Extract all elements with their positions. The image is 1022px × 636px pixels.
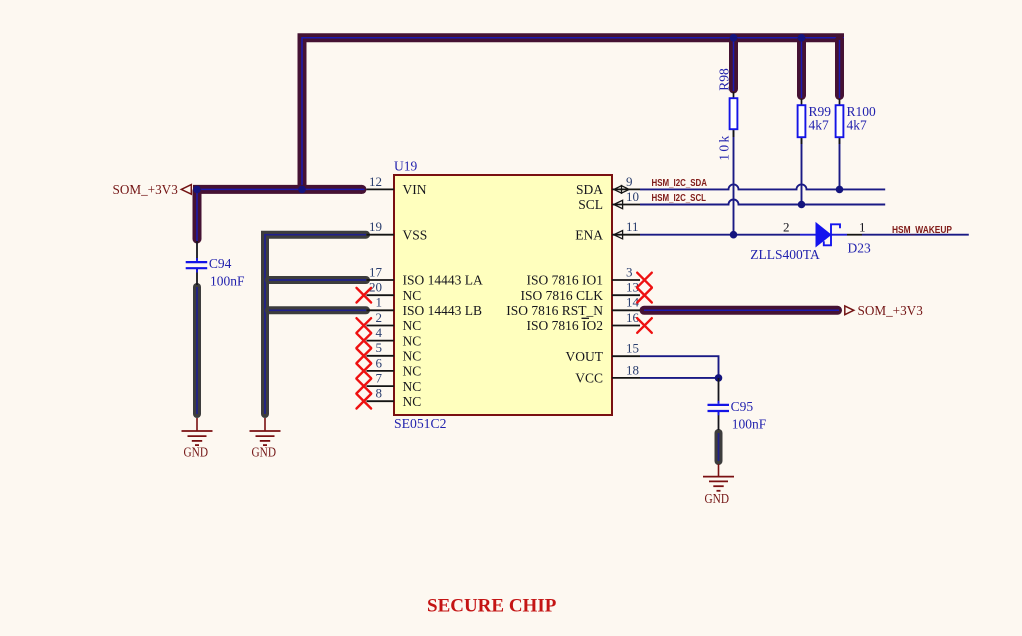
svg-text:15: 15 <box>626 341 639 356</box>
svg-text:R98: R98 <box>717 68 732 91</box>
wire: thick maroon drop to R98 <box>729 40 738 91</box>
svg-text:10: 10 <box>626 189 639 204</box>
node: junction rail R99 <box>798 34 806 42</box>
svg-text:ISO 7816 CLK: ISO 7816 CLK <box>520 288 603 303</box>
svg-text:1: 1 <box>859 220 866 235</box>
wire: thick maroon RST_N to port <box>644 306 839 315</box>
wire: top power rail thick maroon <box>302 38 844 190</box>
svg-text:C95: C95 <box>731 399 754 414</box>
port SOM_+3V3 left <box>113 183 192 198</box>
svg-text:ISO 14443 LB: ISO 14443 LB <box>403 303 483 318</box>
wire: VCC row <box>640 377 719 379</box>
wire: thick maroon VIN row from port to pin 12 <box>193 185 367 194</box>
svg-text:9: 9 <box>626 174 633 189</box>
svg-text:19: 19 <box>369 219 382 234</box>
ground GND middle (VSS bundle) <box>250 418 281 460</box>
no-connect X marks right pins 3,13,16 <box>637 273 652 333</box>
svg-text:SCL: SCL <box>578 197 603 212</box>
svg-text:SE051C2: SE051C2 <box>394 416 447 431</box>
svg-text:SOM_+3V3: SOM_+3V3 <box>858 304 923 319</box>
chip pin names right <box>506 182 604 386</box>
svg-text:D23: D23 <box>848 240 871 255</box>
svg-text:HSM_I2C_SDA: HSM_I2C_SDA <box>652 178 708 189</box>
svg-text:VIN: VIN <box>403 182 427 197</box>
capacitor C95 <box>708 399 767 432</box>
chip U19 body <box>394 159 612 432</box>
node: junction VCC <box>715 374 723 382</box>
resistor R99 <box>798 99 832 144</box>
resistor R98 <box>717 68 738 161</box>
chip pin numbers right <box>626 174 640 377</box>
ground GND left (C94) <box>182 418 213 460</box>
overline on IO2 O <box>582 317 590 319</box>
svg-text:NC: NC <box>403 379 422 394</box>
wire: thick maroon drop to R100 <box>835 40 844 98</box>
svg-text:NC: NC <box>403 364 422 379</box>
wire: thick maroon from port down to C94 <box>193 191 202 241</box>
wire: stem to C95 <box>718 378 720 404</box>
wire: thick maroon drop to R99 <box>797 40 806 98</box>
svg-text:6: 6 <box>376 355 383 370</box>
diode D23 ZLLS400TA <box>750 220 871 262</box>
wire: R100 thin net down to SDA <box>839 138 841 189</box>
wire: VOUT to VCC junction <box>640 356 719 378</box>
svg-text:100nF: 100nF <box>210 274 245 289</box>
wire: ENA net to diode and HSM_WAKEUP <box>640 234 969 236</box>
svg-text:NC: NC <box>403 394 422 409</box>
svg-text:4k7: 4k7 <box>847 118 868 133</box>
svg-text:5: 5 <box>376 340 383 355</box>
wire: SDA net <box>640 184 885 189</box>
svg-text:NC: NC <box>403 288 422 303</box>
pin 9 bidirectional arrow glyph <box>614 186 629 193</box>
svg-text:10k: 10k <box>717 136 732 161</box>
svg-text:ISO 14443 LA: ISO 14443 LA <box>403 273 483 288</box>
svg-text:2: 2 <box>376 310 383 325</box>
chip pin names left <box>403 182 483 409</box>
wire: R98 thin net down to ENA <box>733 130 735 235</box>
port SOM_+3V3 right <box>845 304 923 319</box>
wire: thick gray branch pin 17 row <box>269 276 366 284</box>
wire: thick gray below C95 to GND <box>715 433 723 461</box>
svg-text:R100: R100 <box>847 104 877 119</box>
svg-text:VOUT: VOUT <box>566 349 604 364</box>
svg-text:NC: NC <box>403 349 422 364</box>
svg-text:GND: GND <box>184 445 209 460</box>
resistor R100 <box>836 99 876 144</box>
chip pin stubs left <box>367 189 395 401</box>
svg-text:ISO 7816 RST_N: ISO 7816 RST_N <box>506 303 603 318</box>
wire: thick gray VSS bundle vertical + VSS row <box>265 235 366 414</box>
chip pin stubs right <box>612 189 640 378</box>
svg-text:18: 18 <box>626 362 639 377</box>
svg-text:NC: NC <box>403 333 422 348</box>
svg-text:VSS: VSS <box>403 227 428 242</box>
chip pin numbers left <box>369 174 383 401</box>
node: junction rail/VIN vertical <box>298 186 306 194</box>
svg-text:17: 17 <box>369 264 383 279</box>
svg-text:ZLLS400TA: ZLLS400TA <box>750 247 820 262</box>
node: junction R98/ENA <box>730 231 738 239</box>
node: junction rail R98 <box>730 34 738 42</box>
wire: thick gray below C94 to GND <box>193 287 201 414</box>
wire: thick gray branch pin 1 row <box>269 306 366 314</box>
svg-text:4: 4 <box>376 325 383 340</box>
svg-text:ISO 7816 IO2: ISO 7816 IO2 <box>527 318 604 333</box>
pin 11 input arrow glyph <box>614 231 623 239</box>
svg-text:ENA: ENA <box>575 227 603 242</box>
capacitor C94 <box>186 256 245 289</box>
svg-text:12: 12 <box>369 174 382 189</box>
node: junction R100/SDA <box>836 186 844 194</box>
svg-text:NC: NC <box>403 318 422 333</box>
svg-text:2: 2 <box>783 220 790 235</box>
svg-text:VCC: VCC <box>575 371 603 386</box>
svg-text:C94: C94 <box>209 256 232 271</box>
svg-text:SOM_+3V3: SOM_+3V3 <box>113 183 178 198</box>
ground GND (C95) <box>703 464 734 506</box>
svg-text:8: 8 <box>376 386 383 401</box>
node: junction at port branch <box>193 186 201 194</box>
svg-text:3: 3 <box>626 264 633 279</box>
svg-text:R99: R99 <box>809 104 832 119</box>
svg-text:7: 7 <box>376 371 383 386</box>
wire: thin line C94 stem <box>196 241 198 260</box>
svg-text:100nF: 100nF <box>732 416 767 431</box>
wire: R99 thin net down to SCL <box>801 138 803 204</box>
svg-text:SDA: SDA <box>576 182 603 197</box>
svg-text:4k7: 4k7 <box>809 118 830 133</box>
node: junction R99/SCL <box>798 201 806 209</box>
svg-text:ISO 7816 IO1: ISO 7816 IO1 <box>527 273 604 288</box>
svg-text:SECURE CHIP: SECURE CHIP <box>427 596 557 617</box>
svg-text:HSM_WAKEUP: HSM_WAKEUP <box>892 225 952 236</box>
svg-text:11: 11 <box>626 219 639 234</box>
svg-text:U19: U19 <box>394 159 417 174</box>
svg-text:1: 1 <box>376 295 383 310</box>
wire: SCL net <box>640 200 885 205</box>
svg-text:GND: GND <box>705 491 730 506</box>
svg-text:HSM_I2C_SCL: HSM_I2C_SCL <box>652 193 707 204</box>
svg-text:GND: GND <box>252 445 277 460</box>
no-connect X marks left pins 20,2,4,5,6,7,8 <box>357 288 372 409</box>
pin 10 input arrow glyph <box>614 200 623 208</box>
